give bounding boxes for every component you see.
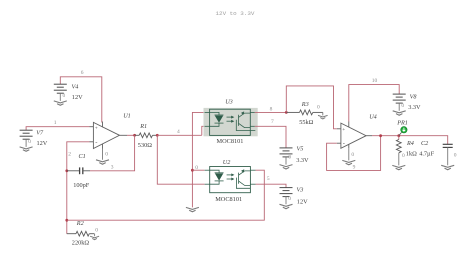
svg-text:12V: 12V xyxy=(37,140,48,147)
svg-text:7: 7 xyxy=(271,119,274,125)
svg-text:1kΩ: 1kΩ xyxy=(406,151,417,158)
svg-text:U1: U1 xyxy=(123,112,131,119)
junction dot R2 branch xyxy=(65,219,68,222)
battery V7 xyxy=(20,130,33,147)
value 55kohm xyxy=(299,119,313,126)
svg-text:12V: 12V xyxy=(72,94,83,101)
ground below U1 xyxy=(96,149,109,165)
wire U1 output to R1 xyxy=(127,134,135,136)
value 1kohm xyxy=(406,151,417,158)
svg-text:0: 0 xyxy=(288,155,291,161)
ground below V4 xyxy=(54,101,67,105)
value 100pF xyxy=(73,182,90,189)
wire U2 cathode (from R1 junction down) xyxy=(157,135,204,184)
op-amp U4 xyxy=(337,122,372,149)
wire net 8 to U4 +in xyxy=(286,86,337,129)
label net 0 at V7 xyxy=(28,139,31,145)
label net 4 xyxy=(177,129,180,135)
value 3.3V at V5 xyxy=(296,157,309,164)
battery V8 xyxy=(393,94,406,111)
label net 0 at V8 xyxy=(401,103,404,109)
label net 8 xyxy=(270,106,273,112)
junction dot C1 left xyxy=(65,169,68,172)
resistor R3 55kohm xyxy=(286,110,323,115)
svg-text:9: 9 xyxy=(353,165,356,171)
svg-text:V4: V4 xyxy=(72,84,79,91)
svg-text:0: 0 xyxy=(402,153,405,159)
label net 0 at V4 xyxy=(63,93,66,99)
battery V3 xyxy=(280,188,293,205)
label net 0 at U1 ground xyxy=(105,151,108,157)
label net 3 xyxy=(111,164,114,170)
value 530ohm xyxy=(138,142,152,149)
ground below C2 xyxy=(441,165,454,169)
probe PR1 xyxy=(399,127,407,136)
capacitor C2 4.7uF xyxy=(443,144,453,165)
svg-text:3.3V: 3.3V xyxy=(408,104,421,111)
label net 7 xyxy=(271,119,274,125)
svg-text:+: + xyxy=(342,127,345,133)
junction dot U1 out xyxy=(133,134,136,137)
svg-text:V8: V8 xyxy=(410,93,418,100)
svg-text:1: 1 xyxy=(54,120,57,126)
label net 0 at R2 ground xyxy=(95,227,98,233)
label net 6 xyxy=(81,70,84,76)
svg-text:R4: R4 xyxy=(406,140,414,147)
label R1 xyxy=(139,123,147,130)
label net 0 at R4 xyxy=(402,153,405,159)
wire net 8 (U3 collector to R3 junction) xyxy=(255,111,286,113)
svg-text:3: 3 xyxy=(111,164,114,170)
label R3 xyxy=(301,101,309,108)
title text xyxy=(216,10,255,17)
svg-text:V5: V5 xyxy=(297,146,304,153)
svg-text:4.7µF: 4.7µF xyxy=(419,151,434,158)
ground below V3 xyxy=(280,204,293,208)
svg-text:0: 0 xyxy=(195,165,198,171)
label U3 xyxy=(225,98,233,105)
value 12V at V3 xyxy=(297,198,308,205)
label C1 xyxy=(79,153,86,160)
wire net 1 (V7 to U1 +in) xyxy=(26,127,89,131)
label V8 xyxy=(410,93,418,100)
svg-text:C2: C2 xyxy=(421,140,428,147)
svg-text:5: 5 xyxy=(267,176,270,182)
label net 0 at R3 ground xyxy=(317,105,320,111)
svg-text:3.3V: 3.3V xyxy=(296,157,309,164)
svg-text:0: 0 xyxy=(105,151,108,157)
svg-text:MOC8101: MOC8101 xyxy=(215,196,242,203)
resistor R1 530ohm xyxy=(135,133,158,138)
wire U3 cathode jog xyxy=(202,126,205,135)
label net 0 at V5 xyxy=(288,155,291,161)
capacitor C1 100pF xyxy=(67,167,90,174)
svg-text:0: 0 xyxy=(454,153,457,159)
svg-text:U4: U4 xyxy=(369,114,377,121)
ground below V7 xyxy=(20,147,33,151)
svg-text:530Ω: 530Ω xyxy=(138,142,152,149)
battery V5 xyxy=(280,148,293,165)
svg-text:+: + xyxy=(95,125,98,131)
svg-text:0: 0 xyxy=(288,196,291,202)
svg-text:55kΩ: 55kΩ xyxy=(299,119,313,126)
svg-text:0: 0 xyxy=(401,103,404,109)
label net 2 xyxy=(68,151,71,157)
label U2 xyxy=(223,159,231,166)
svg-text:PR1: PR1 xyxy=(396,119,408,126)
ground below V8 xyxy=(393,111,406,115)
wire net 5 (U2 emitter to V3) xyxy=(256,184,287,187)
wire net 4 vertical up to U3 anode xyxy=(192,112,204,207)
wire U4 feedback net 9 xyxy=(327,136,381,171)
junction dot net 8 xyxy=(285,111,288,114)
ground below U4 xyxy=(342,148,355,165)
svg-text:10: 10 xyxy=(372,78,378,84)
label net 0 at V3 xyxy=(288,196,291,202)
wire net 4 (R1 right to U3 anode and U2 cathode) xyxy=(157,134,202,136)
label net 1 xyxy=(54,120,57,126)
wire net 2 (U1 -in to C1 left, down to R2) xyxy=(67,142,90,234)
value 12V xyxy=(72,94,83,101)
svg-text:MOC8101: MOC8101 xyxy=(217,138,244,145)
label R4 xyxy=(406,140,414,147)
svg-text:0: 0 xyxy=(351,152,354,158)
label U1 xyxy=(123,112,131,119)
svg-text:-: - xyxy=(343,141,345,148)
svg-text:0: 0 xyxy=(317,105,320,111)
svg-text:U2: U2 xyxy=(223,159,231,166)
value MOC8101 at U2 xyxy=(215,196,242,203)
label net 0 at U4 ground xyxy=(351,152,354,158)
junction dot probe node xyxy=(397,134,400,137)
label net 10 xyxy=(372,78,378,84)
label V7 xyxy=(36,129,44,136)
selection highlight behind U3 xyxy=(204,108,258,136)
label V3 xyxy=(297,187,304,194)
label R2 xyxy=(76,220,84,227)
label V5 xyxy=(297,146,304,153)
wire U2 collector feedback (to R2/C1 node) xyxy=(67,170,264,220)
value 4.7uF xyxy=(419,151,434,158)
optocoupler U2 MOC8101 xyxy=(205,167,256,193)
ground below V5 xyxy=(280,165,293,169)
label U4 xyxy=(369,114,377,121)
svg-text:12V: 12V xyxy=(297,198,308,205)
resistor R4 1kohm xyxy=(396,136,401,166)
battery V4 xyxy=(54,84,67,101)
svg-text:C1: C1 xyxy=(79,153,86,160)
optocoupler U3 MOC8101 xyxy=(205,109,256,135)
svg-text:8: 8 xyxy=(270,106,273,112)
svg-text:2: 2 xyxy=(68,151,71,157)
svg-text:12V to 3.3V: 12V to 3.3V xyxy=(216,10,255,17)
svg-text:0: 0 xyxy=(95,227,98,233)
wire net 7 (U3 emitter to V5) xyxy=(255,126,286,148)
label PR1 xyxy=(396,119,408,126)
svg-text:0: 0 xyxy=(63,93,66,99)
wire net 3 (C1 right up to U1 out) xyxy=(90,135,135,171)
svg-text:0: 0 xyxy=(28,139,31,145)
ground right of R3 xyxy=(318,112,328,119)
junction dot net 0 left of U2 xyxy=(191,169,194,172)
ground below R4 xyxy=(392,165,405,169)
svg-text:V7: V7 xyxy=(36,129,44,136)
label net 0 at U2 xyxy=(195,165,198,171)
svg-text:6: 6 xyxy=(81,70,84,76)
wire net 6 (V4 to U1 VCC) xyxy=(60,77,102,123)
svg-text:220kΩ: 220kΩ xyxy=(72,239,90,246)
value 12V at V7 xyxy=(37,140,48,147)
label V4 xyxy=(72,84,79,91)
value 3.3V at V8 xyxy=(408,104,421,111)
svg-text:R3: R3 xyxy=(301,101,309,108)
label net 5 xyxy=(267,176,270,182)
wire U4 output to C2 xyxy=(372,136,448,145)
svg-text:4: 4 xyxy=(177,129,180,135)
svg-text:R2: R2 xyxy=(76,220,84,227)
svg-text:100pF: 100pF xyxy=(73,182,90,189)
ground right of R2 xyxy=(90,234,99,240)
junction dot R1 right xyxy=(156,134,159,137)
value 220kohm xyxy=(72,239,90,246)
label net 9 xyxy=(353,165,356,171)
svg-text:V3: V3 xyxy=(297,187,304,194)
label C2 xyxy=(421,140,428,147)
wire net 0 to U2 anode xyxy=(192,169,204,171)
svg-text:-: - xyxy=(95,139,97,146)
value MOC8101 at U3 xyxy=(217,138,244,145)
ground below net-0 junction xyxy=(186,207,199,211)
wire net 10 (U4 VCC to V8) xyxy=(349,85,399,122)
svg-text:U3: U3 xyxy=(225,98,233,105)
label net 0 at C2 xyxy=(454,153,457,159)
resistor R2 220kohm xyxy=(67,231,95,236)
junction dot U4 out xyxy=(379,134,382,137)
svg-text:R1: R1 xyxy=(139,123,147,130)
op-amp U1 xyxy=(90,122,128,149)
